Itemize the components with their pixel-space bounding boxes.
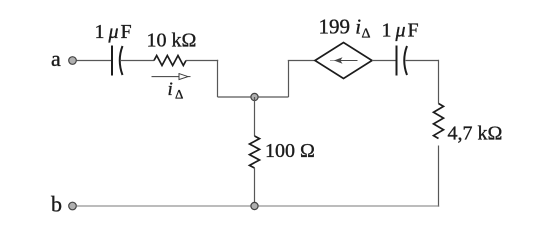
svg-text:b: b (51, 192, 62, 217)
wire diamond to C2 (372, 60, 396, 62)
capacitor C1 right curved plate (120, 46, 123, 75)
wire C2 to right corner (406, 60, 439, 62)
node junction dot bottom (251, 202, 258, 209)
svg-text:a: a (51, 46, 61, 71)
current arrow i-delta under R1 (152, 74, 191, 80)
svg-text:1μF: 1μF (95, 21, 132, 43)
wire R3 to bottom wire (438, 146, 440, 207)
capacitor C2 right curved plate (404, 46, 407, 75)
wire right side down to R3 (438, 60, 440, 104)
resistor R2 100 Ohm zigzag (250, 136, 260, 168)
node b terminal dot (69, 202, 77, 210)
svg-text:199 i: 199 i (319, 15, 362, 39)
svg-text:Δ: Δ (362, 27, 371, 42)
wire C1 to R1 (121, 60, 154, 62)
dependent source arrow pointing left (330, 57, 358, 64)
capacitor C1 left plate (111, 46, 113, 76)
wire R2 to bottom (254, 168, 256, 206)
resistor R3 4,7 kOhm zigzag (434, 104, 444, 139)
svg-text:1μF: 1μF (382, 20, 419, 42)
wire junction down to R2 (254, 97, 256, 136)
wire a to C1 (77, 60, 112, 62)
wire up to dependent source left (288, 61, 290, 98)
svg-text:4,7 kΩ: 4,7 kΩ (448, 123, 503, 145)
wire node row horizontal (218, 96, 289, 98)
node junction dot top (251, 93, 258, 100)
svg-text:Δ: Δ (175, 87, 183, 102)
resistor R1 10 kOhm zigzag (154, 56, 186, 66)
svg-text:i: i (168, 79, 173, 100)
wire to diamond left vertex (288, 60, 315, 62)
wire R1 to corner (186, 60, 218, 62)
capacitor C2 left plate (396, 46, 398, 76)
node a terminal dot (69, 57, 77, 65)
wire corner down to node row (217, 60, 219, 97)
svg-text:10 kΩ: 10 kΩ (147, 30, 197, 52)
dependent source U1 diamond (315, 43, 372, 79)
svg-text:100 Ω: 100 Ω (265, 140, 315, 162)
bottom wire b to right side (77, 205, 440, 207)
